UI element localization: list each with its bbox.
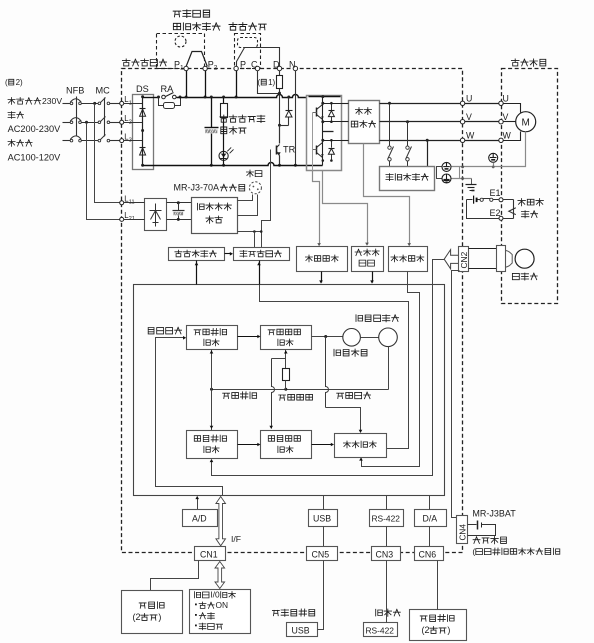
svg-text:USB: USB [313, 514, 331, 524]
module main rail [322, 97, 324, 166]
svg-text:CN2: CN2 [459, 251, 469, 268]
servo amplifier dashed enclosure [122, 69, 463, 553]
wire battery to contact [467, 199, 473, 201]
encoder circle [515, 249, 534, 268]
servo motor title 伺服电机 label [511, 59, 519, 66]
svg-text:D: D [273, 60, 280, 70]
control power box 控制电路电源 [192, 198, 238, 234]
capacitor C-main [211, 98, 213, 128]
base amplifier text 基板放大器 label [240, 250, 247, 257]
wire encoder wire b to CN4 [452, 271, 460, 518]
svg-text:MC: MC [96, 86, 111, 96]
model position text 控制 label [204, 339, 210, 345]
wire U amp to motor [465, 103, 499, 105]
regen option dashed box [235, 34, 261, 69]
label 虚拟编码器 label [356, 315, 363, 322]
PC USB box [287, 623, 318, 637]
wire CN1 to analog box [151, 561, 199, 591]
model speed text 控制 label [278, 339, 284, 345]
wire module to detector [342, 121, 349, 123]
CN6 box [415, 547, 444, 561]
motor M circle [516, 112, 536, 132]
terminal L1 [120, 101, 124, 105]
brake actuator chevron [509, 208, 516, 215]
wire model speed to virtual motor [312, 336, 343, 338]
overcurrent text 保护 label [359, 260, 366, 266]
PE terminal motor frame [489, 153, 498, 162]
wire motor frame PE drop [493, 163, 495, 167]
arrow actual speed to current control [312, 444, 333, 446]
svg-text:230V: 230V [42, 96, 62, 106]
terminal U amp side [460, 101, 464, 105]
svg-text:AC100-120V: AC100-120V [8, 153, 61, 163]
arrow overcurrent to board [372, 272, 374, 283]
PE terminal amp 2 [442, 174, 451, 183]
svg-text:M: M [522, 118, 530, 129]
svg-text:(2: (2 [422, 625, 430, 635]
svg-text:CN6: CN6 [419, 550, 437, 560]
actual speed text 控制 label [278, 446, 284, 452]
phase 3 wire NFB to MC [82, 140, 99, 142]
svg-text:V: V [503, 112, 509, 122]
arrow actual pos to actual speed [238, 444, 260, 446]
regen brake box 再生制动器 [169, 248, 225, 261]
voltage detection box 电压检测 [297, 247, 348, 272]
wire contact to E1 [493, 199, 499, 201]
terminal V motor side [499, 120, 503, 124]
encoder cable top [469, 248, 497, 250]
terminal L2 [120, 120, 124, 124]
svg-text:RS-422: RS-422 [372, 513, 401, 523]
RS-422 box [370, 510, 404, 527]
node C-D junction [278, 92, 281, 95]
base amplifier box 基板放大器 [234, 248, 290, 261]
node P1 drop [185, 96, 188, 99]
module node W-tap [321, 139, 324, 142]
USB box [309, 510, 338, 527]
DS node mid [141, 129, 144, 132]
DS node top [141, 95, 144, 98]
wire rectifier out top [167, 202, 192, 204]
label 动器 label [521, 211, 529, 218]
svg-text:DS: DS [136, 84, 149, 94]
CN1 box [195, 547, 226, 561]
arrow drive regen brake [196, 261, 198, 285]
wire P2 drop [205, 71, 207, 98]
terminal E2 [499, 216, 503, 220]
label 选件电池 label [473, 537, 480, 544]
phase 3 wire to NFB [63, 140, 71, 142]
svg-text:U: U [503, 94, 509, 104]
node N bus [294, 164, 297, 167]
svg-text:RA: RA [161, 84, 175, 94]
arrow model pos to model speed [238, 336, 260, 338]
wire V amp to motor [465, 121, 499, 123]
virtual encoder circle 虚拟编码器 [379, 328, 398, 347]
electromagnetic brake coil line [513, 200, 515, 219]
DS diode D-lower [140, 147, 146, 149]
wire U row [380, 103, 461, 105]
svg-text:C: C [251, 60, 258, 70]
arrow drive base amp [259, 261, 261, 285]
transistor TR regen [279, 126, 281, 144]
wire V into motor [504, 121, 516, 123]
DS wire L3 entry [124, 140, 143, 142]
chassis ground symbol [466, 184, 477, 186]
RA contact [162, 95, 166, 99]
module stub bar [323, 131, 334, 133]
brake battery minus sign [472, 190, 475, 192]
label 充电灯 label [221, 127, 227, 134]
diode D-lower module [331, 141, 333, 148]
source text 或单相 label [8, 140, 15, 147]
wire PE pair right tie [459, 167, 461, 179]
rectifier box control [145, 199, 167, 231]
model speed text 模型速度 label [268, 330, 275, 335]
actual speed control box 实际速度控制 [261, 431, 312, 459]
power-factor reactor caption line2 因数电抗器 label [173, 23, 180, 29]
digital IO hollow arrow [215, 562, 225, 589]
dynamic brake contact 2 [407, 122, 409, 146]
model position text 模型位置 label [194, 330, 201, 335]
wire current sense from detector [364, 144, 410, 245]
label 模型转矩 label [337, 393, 344, 398]
NFB trip bar [76, 97, 78, 137]
module top bus [309, 96, 341, 98]
terminal E1 [499, 198, 503, 202]
node ground at border 1 [461, 166, 464, 169]
digital IO text 数字I/0控制 label [194, 592, 200, 598]
wire C to D-line [258, 71, 280, 94]
wire TR base drive [262, 150, 271, 248]
MC contact pole 2 [98, 121, 101, 124]
dynamic brake text 动态制动器 label [386, 174, 393, 181]
wire P to D jumper over regen option [237, 48, 280, 67]
IGBT Q-upper [316, 108, 318, 117]
node D diode junction [278, 124, 281, 127]
phase 2 wire to NFB [63, 122, 71, 124]
svg-text:NFB: NFB [66, 86, 84, 96]
wire USB drop [323, 496, 325, 510]
node diode drop [287, 96, 290, 99]
wire W row [380, 140, 461, 142]
N bus [143, 163, 323, 166]
battery MR-J3BAT symbol [468, 524, 477, 526]
wire W into motor [504, 132, 521, 141]
phase 2 wire MC to L2 [110, 122, 120, 124]
brake contact [480, 198, 483, 201]
encoder connector block [497, 246, 506, 272]
DS diode D-upper [140, 108, 146, 110]
IGBT module box [307, 96, 342, 171]
model feedback bus [212, 389, 389, 391]
svg-text:AC200-230V: AC200-230V [8, 124, 61, 134]
arrow voltage det to board [321, 272, 323, 283]
controller RS-422 box [364, 623, 398, 637]
terminal D [277, 66, 281, 70]
wire A/D to board [197, 498, 199, 510]
virtual motor shaft [361, 337, 379, 339]
overcurrent box 过电流保护 [352, 247, 384, 272]
wire CN3 to controller [386, 561, 388, 623]
current control box 电流控制 [335, 434, 387, 458]
MC contact pole 3 [98, 139, 101, 142]
node P2 drop [204, 96, 207, 99]
CN4 connector box [457, 516, 468, 544]
encoder cable bottom [469, 268, 497, 270]
actual position text 实际位置 label [194, 436, 200, 442]
module node top [321, 95, 324, 98]
fan dashed circle [249, 182, 261, 194]
digital IO text 故障等 label [195, 625, 197, 627]
control power text 控制电路 label [198, 203, 205, 210]
phase 1 wire NFB to MC [82, 103, 99, 105]
svg-text:I/0: I/0 [210, 590, 220, 600]
NFB breaker pole 3 [70, 139, 73, 142]
node model speed junction [284, 388, 287, 391]
arrow regen to base amp [225, 253, 232, 255]
resistor regen-internal [223, 98, 225, 104]
PE terminal amp 1 [442, 162, 451, 171]
terminal L3 [120, 139, 124, 143]
RA coil branch [159, 98, 164, 106]
wire pulse input [156, 338, 223, 496]
charge lamp LED [219, 151, 228, 160]
terminal U motor side [499, 101, 503, 105]
terminal L11 [120, 201, 124, 205]
svg-text:CN1: CN1 [200, 550, 218, 560]
wire L21 to rectifier [124, 219, 145, 221]
svg-text:MR-J3BAT: MR-J3BAT [472, 509, 516, 519]
svg-text:): ) [158, 612, 161, 622]
svg-text:W: W [466, 130, 475, 140]
svg-text:(2: (2 [133, 612, 141, 622]
wire P1 drop [186, 71, 188, 98]
svg-text:P: P [240, 60, 246, 70]
dynamic brake contact 1 [389, 104, 391, 146]
label 模型速度 label [279, 395, 286, 400]
svg-text:E2: E2 [490, 208, 501, 218]
svg-text:1: 1 [180, 65, 184, 72]
node lamp bottom [222, 164, 225, 167]
phase 1 wire to NFB [63, 103, 71, 105]
wire module to detector [342, 140, 349, 142]
wire V row [380, 121, 461, 123]
regeneration option caption 再生选件 label [229, 23, 237, 31]
brake battery symbol [473, 196, 475, 204]
label 电磁制 label [518, 199, 526, 206]
actual speed text 实际速度 label [268, 436, 274, 442]
svg-text:TR: TR [283, 145, 296, 155]
node RA left [157, 96, 160, 99]
wire voltage sense [313, 171, 320, 245]
label 模型位置 label [223, 393, 230, 398]
svg-text:(: ( [472, 546, 475, 556]
D/A box [415, 510, 447, 527]
wire USB to CN5 [323, 527, 325, 547]
digital IO text 伺服ON label [195, 604, 197, 606]
diode D-upper module [331, 104, 333, 111]
phase 1 wire MC to L1 [110, 103, 120, 105]
terminal C [255, 66, 259, 70]
wire encoder feedback a [212, 260, 445, 476]
wire control supply to base amp [238, 231, 262, 233]
node resistor drop [222, 96, 225, 99]
wire module to detector [342, 103, 349, 105]
terminal L21 [120, 217, 124, 221]
MC contact pole 1 [98, 102, 101, 105]
wire branch to L21 [87, 123, 120, 220]
node cap drop [210, 96, 213, 99]
DS wire L1 entry [124, 103, 143, 105]
wire L11 to rectifier [124, 202, 145, 204]
terminal V amp side [460, 120, 464, 124]
node V switch tap [406, 120, 409, 123]
wire stub to base amp [254, 232, 256, 248]
resistor regen-external D [279, 71, 281, 76]
svg-text:): ) [447, 625, 450, 635]
wire fan feed 1 [238, 195, 253, 201]
model position control box 模型位置控制 [187, 326, 238, 350]
wire E2 into motor [504, 218, 514, 220]
wire PE2 to chassis [452, 178, 472, 180]
current detection box 电流检测 [389, 247, 428, 272]
node base amp stub [253, 230, 256, 233]
wire RS-422 drop [386, 496, 388, 510]
label 脉冲输入 label [148, 328, 154, 334]
wire PE pair left bracket [437, 167, 442, 179]
label 风扇 label [246, 170, 253, 177]
current detector box 电流检测器 [349, 101, 380, 144]
MC common bar [104, 98, 106, 137]
reactor option dashed box [157, 34, 205, 69]
wire overcurrent sense [323, 171, 368, 245]
terminal P1 [184, 66, 188, 70]
actual position control box 实际位置控制 [187, 431, 238, 459]
svg-text:CN3: CN3 [376, 550, 394, 560]
CN5 box [307, 547, 338, 561]
wire branch to L11 [95, 104, 120, 203]
digital IO box 数字I/O控制 [190, 590, 251, 634]
current detector text 检测器 label [351, 121, 358, 127]
svg-text:(: ( [258, 78, 261, 87]
terminal P2 [203, 66, 207, 70]
svg-text:D/A: D/A [423, 514, 438, 524]
svg-text:CN5: CN5 [312, 550, 330, 560]
label 虚拟电机 label [334, 349, 341, 356]
wire virtual encoder drop [388, 347, 390, 390]
overcurrent text 过电流 label [355, 249, 362, 255]
IGBT Q-lower [316, 146, 318, 155]
encoder label 编码器 label [512, 273, 519, 279]
node branch L21 [85, 121, 88, 124]
capacitor control filter [177, 201, 180, 204]
wire E2 loop [467, 200, 499, 219]
svg-text:A/D: A/D [192, 514, 207, 524]
svg-text:(: ( [5, 78, 8, 87]
power-factor reactor caption line1 改善功率 label [173, 11, 181, 17]
dynamic brake box 动态制动器 [380, 167, 435, 191]
wire DS to RA [143, 97, 159, 99]
module node emitter [322, 159, 325, 162]
node W brake tap [426, 139, 429, 142]
wire motor ground [452, 132, 526, 167]
node model pos junction [210, 388, 213, 391]
module node V-tap [321, 120, 324, 123]
wire E1 into motor [504, 199, 514, 201]
CN2 connector box [459, 247, 469, 272]
diode regen freewheel [288, 98, 290, 111]
module wire V-tap [323, 121, 342, 123]
A/D box [183, 510, 218, 527]
current detector text 电流 label [355, 108, 362, 115]
source text 三相 label [8, 112, 15, 119]
terminal N [293, 66, 297, 70]
phase 3 wire MC to L3 [110, 140, 120, 142]
module wire W-tap [323, 140, 342, 142]
regen brake text 再生制动器 label [175, 250, 182, 257]
node cap bottom [210, 164, 213, 167]
wire U into motor [504, 104, 521, 113]
wire N drop [295, 71, 297, 166]
wire D/A to CN6 [429, 527, 431, 547]
node RA right [179, 96, 182, 99]
DS wire L2 entry [124, 122, 143, 124]
phase 2 wire NFB to MC [82, 122, 99, 124]
node model torque tap [324, 335, 327, 338]
wire PWM path [260, 285, 409, 449]
wire model speed with resistor [285, 350, 287, 369]
svg-text:CN4: CN4 [459, 524, 468, 541]
diode stack DS box [133, 95, 154, 170]
module gate rail [312, 113, 314, 171]
CN3 box [372, 547, 401, 561]
wire rectifier out bottom [167, 219, 192, 221]
svg-text:USB: USB [292, 626, 310, 636]
wire CN6 to analog monitor [437, 561, 439, 610]
wire RS-422 to CN3 [386, 527, 388, 547]
analog input text 模拟量 label [139, 603, 146, 608]
DS node bottom [141, 164, 144, 167]
servo motor dashed enclosure [502, 69, 558, 304]
svg-text:N: N [289, 60, 296, 70]
I/F hollow double arrow [216, 497, 226, 546]
svg-text:2: 2 [214, 65, 218, 72]
wire D/A drop [429, 496, 431, 510]
wire model torque hop [326, 337, 329, 408]
wire W to dynamic brake [427, 141, 429, 167]
svg-text:E1: E1 [490, 188, 501, 198]
rectifier symbol [155, 204, 157, 227]
analog monitor text 模拟监控 label [420, 616, 427, 621]
encoder neck [506, 251, 512, 268]
model speed control box 模型速度控制 [261, 326, 312, 350]
terminal W amp side [460, 138, 464, 142]
control power text 电源 label [206, 216, 214, 223]
digital IO text 启动 label [195, 614, 197, 616]
terminal W motor side [499, 138, 503, 142]
wire CN5 to PC [318, 561, 324, 630]
node U switch tap [388, 102, 391, 105]
DS internal rail [142, 97, 144, 166]
source text 电源单相230V label [8, 98, 15, 105]
node P drop [235, 96, 238, 99]
label 控制器 label [376, 609, 383, 616]
svg-text:ON: ON [216, 600, 229, 610]
wire fan feed 2 [238, 195, 258, 216]
reactor FR-BAL trapezoid symbol [186, 52, 207, 67]
regen option inner dashed rounded box [238, 38, 258, 48]
